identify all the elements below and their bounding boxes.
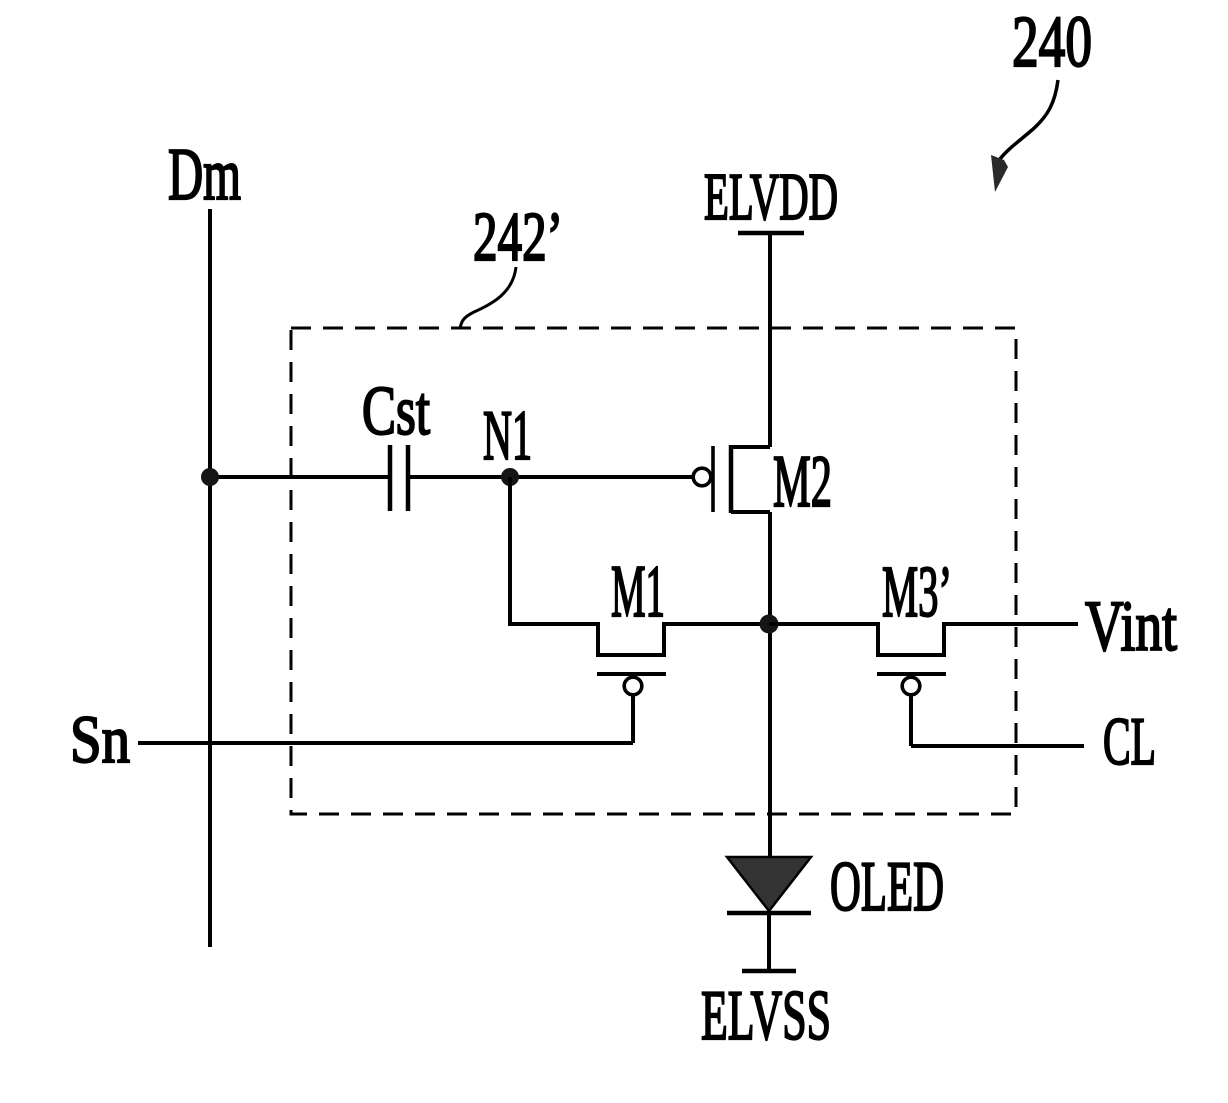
transistor M2 (PMOS) <box>693 445 770 513</box>
leader arrow for 240 <box>991 80 1058 192</box>
node dot on Dm line <box>201 468 219 486</box>
capacitor Cst plates <box>388 445 393 511</box>
wire M1 gate to Sn <box>631 695 635 743</box>
wire OLED cathode to ELVSS <box>767 913 771 970</box>
dashed box 242' <box>291 328 1016 814</box>
wire ELVDD vertical to M2 source <box>768 233 772 447</box>
wire center node through M3' channel to Vint <box>769 624 1078 655</box>
transistor M3' gate bubble <box>902 677 920 695</box>
wire capacitor to M2 gate <box>410 475 692 479</box>
svg-text:242’: 242’ <box>473 199 563 276</box>
transistor M3' gate bar <box>877 672 946 676</box>
svg-text:Dm: Dm <box>168 134 241 216</box>
svg-text:240: 240 <box>1012 1 1092 82</box>
svg-text:ELVDD: ELVDD <box>704 160 838 234</box>
leader curve for 242' <box>460 267 516 329</box>
power symbol ELVSS bar <box>742 969 796 974</box>
svg-text:N1: N1 <box>483 397 532 475</box>
wire N1 through M1 channel to center node <box>510 477 769 655</box>
node N1 dot <box>501 468 519 486</box>
svg-text:Sn: Sn <box>70 701 130 777</box>
svg-text:OLED: OLED <box>830 848 944 926</box>
svg-text:M3’: M3’ <box>882 551 952 632</box>
svg-text:M2: M2 <box>773 441 832 523</box>
wire M3' gate down to CL <box>909 695 913 746</box>
wire M2 drain down to OLED <box>768 512 772 858</box>
svg-text:CL: CL <box>1103 703 1156 779</box>
svg-text:ELVSS: ELVSS <box>701 977 831 1055</box>
svg-text:M1: M1 <box>611 551 665 633</box>
wire Dm vertical line <box>208 209 212 947</box>
diode OLED <box>727 857 811 913</box>
wire CL horizontal <box>911 744 1084 748</box>
wire Sn horizontal <box>138 741 633 745</box>
transistor M1 gate bubble <box>624 677 642 695</box>
power symbol ELVDD bar <box>738 231 804 236</box>
node dot center junction <box>760 615 779 634</box>
transistor M1 gate bar <box>597 672 666 676</box>
svg-text:Vint: Vint <box>1085 586 1177 666</box>
wire Dm to capacitor <box>210 475 388 479</box>
svg-text:Cst: Cst <box>362 373 430 450</box>
